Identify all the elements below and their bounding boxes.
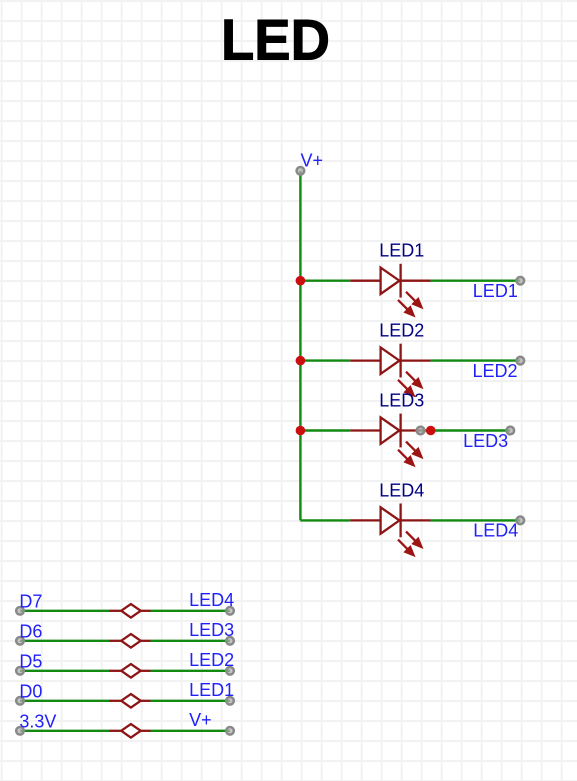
net tie D0/LED1 (diamond net port) <box>110 694 151 708</box>
wire net tie to LED4 <box>151 610 231 612</box>
svg-text:LED4: LED4 <box>379 480 424 500</box>
wire net tie to V+ <box>151 730 231 732</box>
wire net tie to LED3 <box>151 640 231 642</box>
wire LED2 cathode to terminal <box>431 359 521 361</box>
wire LED4 cathode to terminal <box>431 519 521 521</box>
svg-text:V+: V+ <box>301 151 324 171</box>
wire V+ bus to LED3 anode <box>300 429 350 431</box>
svg-text:D6: D6 <box>19 622 42 642</box>
net tie 3.3V/V+ (diamond net port) <box>110 724 151 738</box>
wire D5 to net tie <box>20 670 110 672</box>
wire LED1 cathode to terminal <box>431 280 521 282</box>
svg-text:LED3: LED3 <box>189 620 234 640</box>
wire D0 to net tie <box>20 700 110 702</box>
svg-text:LED1: LED1 <box>379 241 424 261</box>
LED LED3 symbol <box>350 414 421 466</box>
LED LED2 symbol <box>350 344 430 396</box>
net tie D7/LED4 (diamond net port) <box>110 604 151 618</box>
node junction LED3 anode on V+ bus <box>296 426 306 436</box>
net tie D6/LED3 (diamond net port) <box>110 634 151 648</box>
LED LED4 symbol <box>350 504 430 556</box>
svg-text:LED3: LED3 <box>463 431 508 451</box>
node junction LED1 anode on V+ bus <box>296 276 306 286</box>
wire V+ bus to LED1 anode <box>300 280 350 282</box>
pin LED4 terminal <box>226 607 234 615</box>
pin D6 terminal <box>16 637 24 645</box>
pin LED4 terminal <box>517 517 525 525</box>
wire D7 to net tie <box>20 610 110 612</box>
svg-text:LED3: LED3 <box>379 390 424 410</box>
wire net tie to LED2 <box>151 670 231 672</box>
pin 3.3V terminal <box>16 727 24 735</box>
wire V+ bus to LED4 anode <box>300 519 350 521</box>
wire 3.3V to net tie <box>20 730 110 732</box>
svg-text:D0: D0 <box>19 682 42 702</box>
pin V+ terminal <box>297 167 305 175</box>
pin LED1 terminal <box>517 277 525 285</box>
pin D5 terminal <box>16 667 24 675</box>
node junction LED2 anode on V+ bus <box>296 356 306 366</box>
LED LED1 symbol <box>350 264 430 316</box>
pin LED3 cathode pin end <box>417 427 425 435</box>
pin LED2 terminal <box>226 667 234 675</box>
svg-text:LED2: LED2 <box>473 361 518 381</box>
svg-text:LED4: LED4 <box>189 590 234 610</box>
svg-text:LED2: LED2 <box>379 321 424 341</box>
svg-text:LED2: LED2 <box>189 650 234 670</box>
wire V+ bus to LED2 anode <box>300 359 350 361</box>
svg-text:LED1: LED1 <box>473 281 518 301</box>
svg-text:LED1: LED1 <box>189 680 234 700</box>
pin LED2 terminal <box>517 357 525 365</box>
wire V+ vertical bus <box>299 171 301 521</box>
svg-text:D5: D5 <box>19 652 42 672</box>
wire D6 to net tie <box>20 640 110 642</box>
net tie D5/LED2 (diamond net port) <box>110 664 151 678</box>
node junction LED3 cathode wire <box>426 426 436 436</box>
pin LED3 terminal <box>226 637 234 645</box>
pin V+ terminal <box>226 727 234 735</box>
svg-text:LED: LED <box>221 9 330 73</box>
svg-text:V+: V+ <box>189 710 212 730</box>
svg-text:D7: D7 <box>19 592 42 612</box>
pin D7 terminal <box>16 607 24 615</box>
wire LED3 cathode to terminal <box>421 429 511 431</box>
pin D0 terminal <box>16 697 24 705</box>
svg-text:LED4: LED4 <box>473 521 518 541</box>
svg-text:3.3V: 3.3V <box>19 712 56 732</box>
wire net tie to LED1 <box>151 700 231 702</box>
pin LED1 terminal <box>226 697 234 705</box>
pin LED3 terminal <box>507 427 515 435</box>
